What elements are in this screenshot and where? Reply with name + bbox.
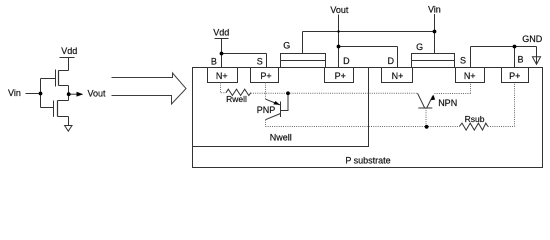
svg-text:G: G [283,41,290,51]
svg-text:P+: P+ [335,71,346,81]
svg-text:Vdd: Vdd [61,46,77,56]
svg-text:NPN: NPN [438,98,457,108]
svg-text:B: B [517,55,523,65]
svg-text:D: D [388,56,395,66]
svg-text:N+: N+ [216,71,228,81]
svg-text:Vout: Vout [88,89,107,99]
svg-text:S: S [257,56,263,66]
svg-text:P+: P+ [260,71,271,81]
svg-text:PNP: PNP [257,105,276,115]
svg-text:G: G [416,42,423,52]
svg-text:Vin: Vin [8,88,21,98]
svg-text:B: B [211,57,217,67]
svg-text:Vout: Vout [330,5,349,15]
svg-text:P+: P+ [509,71,520,81]
svg-text:Nwell: Nwell [270,133,292,143]
svg-text:Rwell: Rwell [226,94,247,104]
svg-text:S: S [460,56,466,66]
svg-text:Vin: Vin [428,5,441,15]
svg-text:D: D [343,56,350,66]
svg-text:P substrate: P substrate [345,155,390,165]
svg-text:N+: N+ [392,71,404,81]
svg-text:Vdd: Vdd [213,27,229,37]
svg-text:N+: N+ [464,71,476,81]
svg-text:GND: GND [522,34,543,44]
svg-text:Rsub: Rsub [465,114,485,124]
